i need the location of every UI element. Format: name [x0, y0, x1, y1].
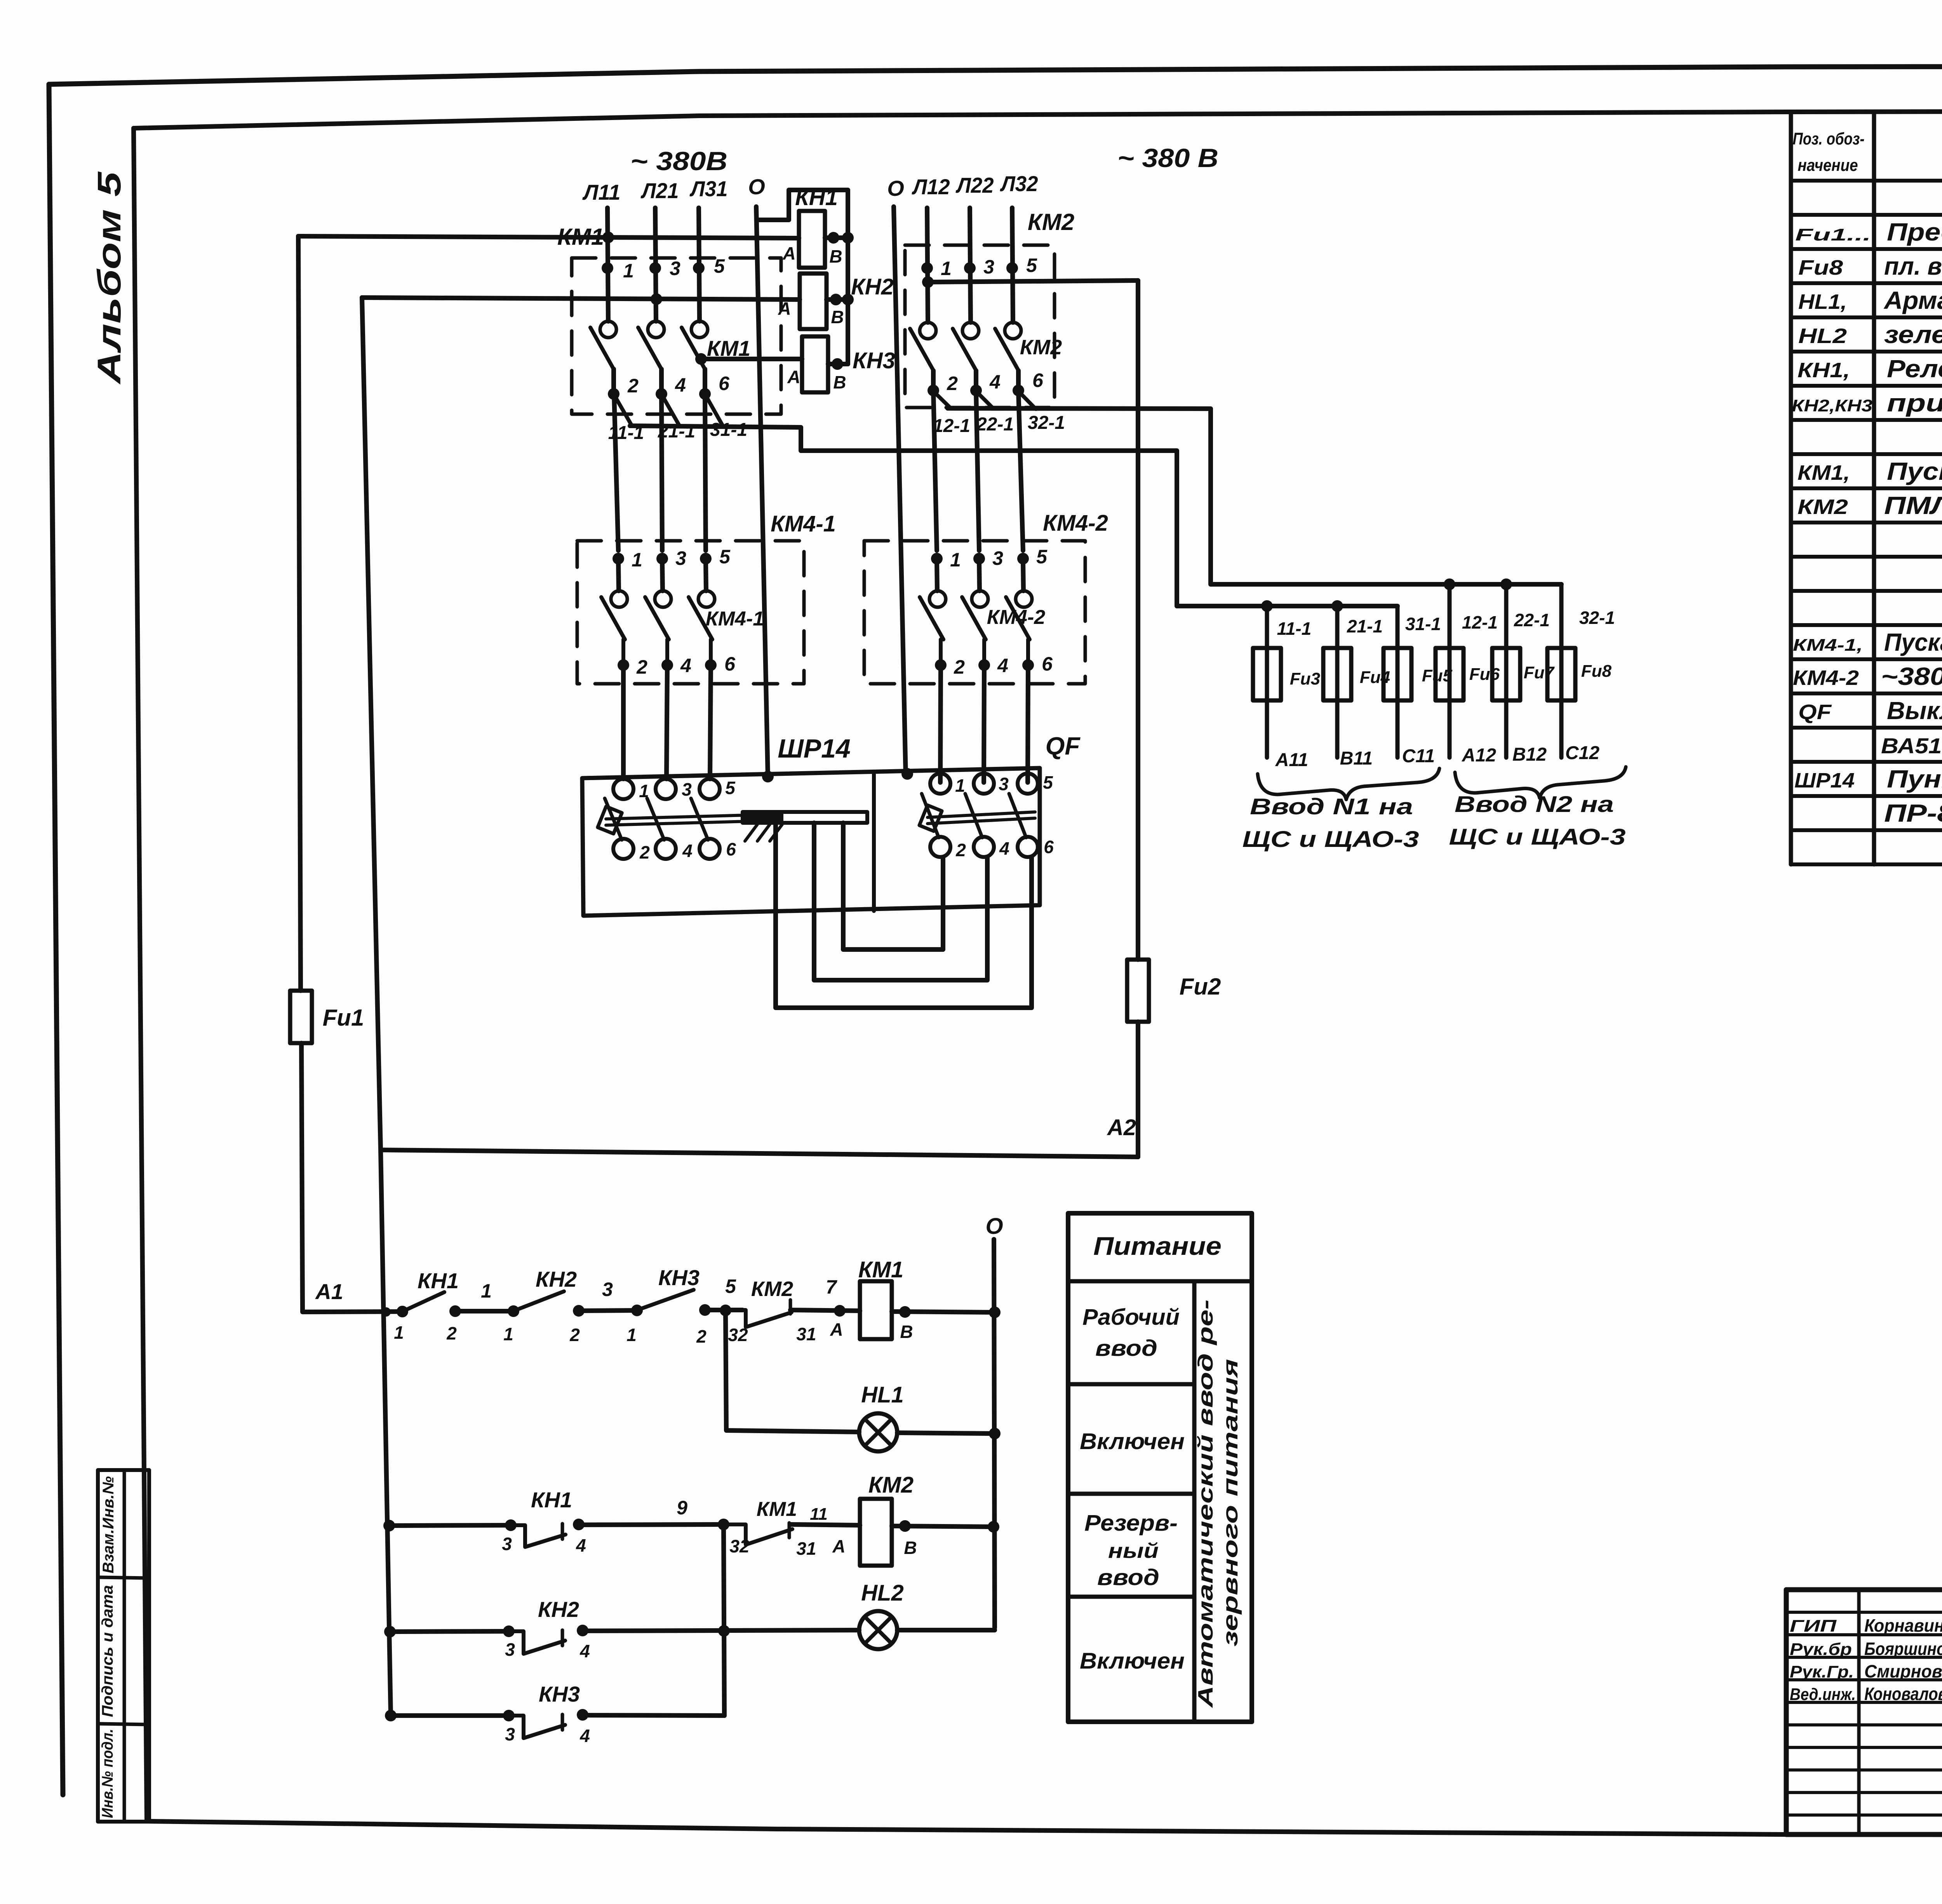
svg-text:Fu8: Fu8: [1581, 662, 1612, 681]
svg-text:В11: В11: [1340, 748, 1373, 769]
contact KH1 (3-4) NC: [505, 1519, 517, 1531]
svg-text:11-1: 11-1: [1277, 618, 1312, 639]
svg-text:31: 31: [796, 1538, 816, 1559]
svg-text:А12: А12: [1462, 745, 1496, 766]
junction: left rail to KH2 rung: [384, 1626, 396, 1637]
ShR14 fuse carrier bar: [606, 814, 779, 819]
svg-text:Резерв-: Резерв-: [1084, 1510, 1178, 1536]
junction: feeder to fuse Fu6: [1444, 578, 1455, 590]
wire: phase L21 vertical: [655, 208, 656, 321]
svg-text:Л11: Л11: [582, 180, 621, 204]
relay KH1 coil: [799, 211, 825, 268]
QF switch pole 1: [930, 773, 950, 794]
svg-text:КМ1: КМ1: [858, 1257, 903, 1282]
svg-text:1: 1: [632, 549, 642, 571]
svg-text:Предохранитель ППТ-10УЗ: Предохранитель ППТ-10УЗ: [1887, 218, 1942, 246]
wire: KH3 rung: [391, 1713, 509, 1718]
junction: neutral 1 to ShR14: [762, 771, 774, 782]
sheet inner frame: [134, 110, 1942, 128]
contact KH1 (1-2) NO: [397, 1306, 408, 1317]
KM1 pole 3 bottom terminal 6: [699, 388, 711, 400]
svg-text:КМ2: КМ2: [1020, 336, 1062, 359]
svg-text:КМ2: КМ2: [868, 1472, 914, 1498]
svg-text:Fu1...: Fu1...: [1795, 225, 1871, 244]
svg-text:ШР14: ШР14: [778, 734, 851, 763]
svg-text:4: 4: [680, 655, 691, 676]
junction: neutral 2 to ShR14: [901, 768, 913, 780]
svg-text:КМ2: КМ2: [1028, 209, 1074, 235]
svg-text:Включен: Включен: [1080, 1429, 1185, 1454]
svg-text:5: 5: [1043, 772, 1053, 793]
QF switch pole 2: [974, 773, 994, 794]
wire: L21 tap to relay KH2 coil: [362, 298, 800, 300]
wire: neutral 0 line (right): [894, 207, 906, 777]
svg-text:3: 3: [999, 774, 1009, 794]
wire: phase L31 vertical: [699, 208, 700, 321]
junction: rung2 to right rail: [988, 1521, 999, 1533]
junction: feeder to fuse Fu3: [1261, 600, 1273, 612]
ShR14 switch-fuse pole 2: [656, 779, 676, 799]
svg-text:3: 3: [602, 1279, 613, 1300]
KM2 pole 1 top terminal: [921, 262, 933, 274]
svg-text:6: 6: [719, 373, 730, 394]
junction: left rail to KH3 rung: [385, 1710, 397, 1721]
svg-text:О: О: [985, 1214, 1003, 1239]
svg-text:ввод: ввод: [1097, 1565, 1159, 1590]
svg-text:КМ4-1: КМ4-1: [706, 608, 764, 630]
svg-text:22-1: 22-1: [976, 414, 1014, 435]
svg-text:6: 6: [1032, 369, 1044, 391]
contact KH3 (3-4) NC: [503, 1710, 515, 1721]
KM4-1 pole 1 top terminal: [613, 553, 624, 564]
svg-text:Пункт распределительный: Пункт распределительный: [1887, 765, 1942, 793]
svg-text:КН3: КН3: [539, 1682, 580, 1706]
svg-text:3: 3: [670, 258, 680, 279]
ShR14 switch-fuse pole 1: [613, 779, 633, 799]
svg-text:ЩС и ЩАО-3: ЩС и ЩАО-3: [1242, 827, 1419, 852]
svg-text:~380В, 200А, ТУ16-644.001-83: ~380В, 200А, ТУ16-644.001-83: [1881, 662, 1942, 690]
svg-text:НL2: НL2: [861, 1580, 904, 1606]
svg-text:присоединение переднее: присоединение переднее: [1887, 389, 1942, 417]
junction: feeder to fuse Fu7: [1500, 578, 1512, 590]
svg-text:КМ4-1: КМ4-1: [771, 511, 836, 537]
svg-text:Взам.Инв.№: Взам.Инв.№: [100, 1476, 117, 1573]
svg-text:3: 3: [505, 1724, 515, 1744]
svg-text:КН2: КН2: [536, 1267, 577, 1291]
KM2 pole 3 bottom terminal 6: [1013, 385, 1024, 396]
svg-text:А2: А2: [1107, 1115, 1136, 1140]
junction: drop line at KH2 rung: [718, 1625, 730, 1637]
svg-text:4: 4: [579, 1726, 590, 1746]
KM4-2 pole 3 bottom terminal 6: [1022, 659, 1034, 671]
svg-text:22-1: 22-1: [1514, 610, 1550, 630]
KM1 pole 3 top terminal: [693, 262, 705, 274]
svg-text:5: 5: [725, 1275, 736, 1297]
KM4-1 pole 1 bottom terminal 2: [618, 659, 629, 671]
KM4-2 pole 2 top terminal: [973, 553, 985, 564]
svg-text:Fu1: Fu1: [323, 1005, 364, 1031]
KM2 pole 1 bottom terminal 2: [927, 385, 939, 396]
svg-text:Л32: Л32: [1000, 171, 1038, 196]
svg-text:Рук.Гр.: Рук.Гр.: [1790, 1662, 1854, 1681]
svg-text:6: 6: [1042, 653, 1053, 675]
svg-text:Л22: Л22: [955, 173, 994, 197]
KM2 pole 3 top terminal: [1006, 262, 1018, 274]
svg-text:Fu3: Fu3: [1290, 669, 1320, 688]
svg-text:ЩС и ЩАО-3: ЩС и ЩАО-3: [1449, 824, 1626, 850]
KM2 pole 3 contact: [1005, 322, 1021, 339]
brace: vvod 1 group: [1258, 768, 1439, 800]
fuse Fu5: [1396, 606, 1400, 758]
ShR14 switch-fuse pole 3: [700, 779, 720, 799]
wire: phase L22 vertical: [970, 208, 971, 322]
KM1 pole 2 bottom terminal 4: [656, 388, 667, 400]
wire: HL1 branch: [726, 1311, 859, 1432]
wire A2: reserve control feed: [381, 1150, 1138, 1157]
wire: phase L32 vertical: [1012, 208, 1013, 322]
relay KH3 coil: [802, 336, 828, 392]
svg-text:5: 5: [719, 546, 731, 568]
svg-text:В: В: [829, 246, 842, 267]
svg-text:Fu2: Fu2: [1180, 974, 1221, 1000]
svg-text:QF: QF: [1046, 732, 1081, 760]
KM1 pole 1 bottom terminal 2: [608, 388, 619, 400]
svg-text:2: 2: [446, 1323, 457, 1343]
svg-text:2: 2: [947, 373, 958, 394]
svg-text:КМ4-2: КМ4-2: [1793, 666, 1859, 690]
QF fuse carrier bar: [927, 812, 1035, 817]
KM4-1 pole 2 contact: [662, 561, 663, 591]
title block frame: [1786, 1590, 1942, 1834]
svg-text:32-1: 32-1: [1579, 608, 1615, 628]
wire: KM4-1 outputs down to ShR14: [621, 665, 626, 779]
contact KM2 (32-31) NC: [743, 1310, 792, 1327]
fuse Fu6: [1448, 584, 1452, 758]
svg-text:4: 4: [579, 1641, 590, 1661]
svg-text:32-1: 32-1: [1028, 413, 1065, 433]
svg-text:6: 6: [724, 653, 736, 675]
fuse Fu7: [1504, 584, 1509, 758]
wire: ShR14 busbar to QF pole 1: [843, 823, 943, 949]
wire: left control rail (from L21 tap to bottom rungs): [362, 298, 391, 1716]
wire: ShR14 busbar to QF pole 2: [814, 823, 987, 980]
KM4-2 pole 1 contact: [937, 561, 937, 591]
svg-text:Пускатель магнитный: Пускатель магнитный: [1887, 457, 1942, 485]
KM1 pole 2 contact: [648, 321, 664, 338]
svg-text:32: 32: [729, 1536, 750, 1556]
svg-text:32: 32: [728, 1325, 748, 1345]
wire: control rung 2: [389, 1525, 511, 1526]
svg-text:ШР14: ШР14: [1794, 769, 1855, 792]
wire: KH2 rung with HL2: [390, 1631, 509, 1632]
svg-text:О: О: [887, 176, 904, 200]
QF switch pole 3: [1018, 773, 1038, 794]
svg-text:1: 1: [626, 1325, 637, 1345]
svg-text:5: 5: [725, 778, 736, 798]
svg-text:КМ4-2: КМ4-2: [987, 606, 1046, 629]
svg-text:Fu7: Fu7: [1524, 663, 1555, 682]
KM4-2 pole 1 top terminal: [931, 553, 943, 564]
wire: phase L12 vertical: [927, 208, 928, 322]
svg-text:КМ1: КМ1: [757, 1498, 797, 1521]
svg-text:ПР-8501-016УХЛ2, 380В: ПР-8501-016УХЛ2, 380В: [1884, 799, 1942, 827]
svg-text:КН3: КН3: [853, 348, 895, 373]
KM4-1 pole 3 bottom terminal 6: [705, 659, 717, 671]
svg-text:Инв.№ подл.: Инв.№ подл.: [99, 1729, 116, 1818]
svg-text:1: 1: [950, 549, 961, 571]
svg-text:1: 1: [481, 1280, 492, 1302]
title block signature grid: [1786, 1611, 1942, 1614]
KH3 coil B terminal wire: [828, 362, 848, 366]
svg-text:А1: А1: [315, 1279, 343, 1304]
wire: neutral 0 line (left): [756, 207, 768, 777]
svg-text:Пускатель магнитный ПМЛ721002В: Пускатель магнитный ПМЛ721002В: [1884, 628, 1942, 656]
svg-text:1: 1: [394, 1322, 404, 1343]
junction: rung1 to HL1 drop: [720, 1305, 731, 1316]
svg-text:Альбом 5: Альбом 5: [91, 171, 127, 385]
svg-text:О: О: [748, 174, 765, 199]
svg-text:Поз. обоз-: Поз. обоз-: [1793, 129, 1865, 148]
svg-text:КМ2: КМ2: [1798, 495, 1848, 519]
wire: KM4-2 outputs down to QF: [940, 665, 941, 782]
fuse Fu1: [298, 236, 301, 991]
KM4-2 pole 2 contact: [979, 561, 980, 591]
KM2 pole 1 contact: [920, 322, 936, 339]
svg-text:3: 3: [983, 256, 994, 278]
svg-text:4: 4: [682, 841, 693, 861]
svg-text:А: А: [832, 1536, 845, 1556]
contact KH2 (1-2) NO: [508, 1305, 519, 1317]
svg-text:зеленый, ТУ16-535. 681 -76: зеленый, ТУ16-535. 681 -76: [1884, 321, 1942, 348]
svg-text:А: А: [778, 298, 791, 319]
svg-text:КН1: КН1: [531, 1488, 572, 1512]
svg-text:12-1: 12-1: [1462, 612, 1498, 632]
wire: KM2 blade outputs to feeder bus (vvod 2): [934, 392, 951, 408]
KH2 coil B terminal wire: [827, 297, 848, 302]
svg-text:4: 4: [675, 374, 686, 396]
svg-text:Арматура АСЛ11У2, ~220В, цвет: Арматура АСЛ11У2, ~220В, цвет: [1883, 286, 1942, 314]
svg-text:Автоматический ввод ре-: Автоматический ввод ре-: [1194, 1300, 1217, 1709]
svg-text:КН1: КН1: [418, 1268, 459, 1293]
svg-text:Смирнова: Смирнова: [1864, 1661, 1942, 1681]
svg-text:ВА51-35-33-0020-2.0УХЛ3,~380В,: ВА51-35-33-0020-2.0УХЛ3,~380В,250А: [1881, 733, 1942, 758]
svg-text:QF: QF: [1798, 700, 1832, 724]
KH1 coil B terminal wire: [825, 235, 848, 240]
svg-text:6: 6: [726, 839, 736, 859]
svg-text:Выключатель автоматический: Выключатель автоматический: [1887, 697, 1942, 725]
svg-text:1: 1: [941, 258, 952, 279]
junction: feeder to fuse Fu4: [1331, 600, 1343, 612]
svg-text:2: 2: [696, 1326, 706, 1347]
svg-text:КН1,: КН1,: [1798, 359, 1850, 382]
svg-text:Fu8: Fu8: [1798, 256, 1843, 279]
KM4-1 pole 3 top terminal: [700, 553, 712, 564]
svg-text:Рабочий: Рабочий: [1082, 1305, 1180, 1330]
svg-text:Fu6: Fu6: [1469, 665, 1500, 684]
svg-text:В: В: [900, 1322, 913, 1342]
wire: L12 tap to fuse Fu2 feeder: [928, 280, 1138, 282]
fuse Fu3: [1265, 606, 1269, 758]
svg-text:4: 4: [999, 838, 1009, 859]
contactor KM4-2 dashed box: [864, 541, 1085, 684]
svg-text:1: 1: [503, 1324, 513, 1344]
svg-text:ный: ный: [1108, 1539, 1159, 1563]
svg-text:3: 3: [502, 1534, 512, 1554]
svg-text:5: 5: [1026, 254, 1037, 276]
svg-text:5: 5: [714, 255, 725, 277]
wire: L11 tap to Fu1 and relay KH1 coil: [298, 236, 799, 238]
svg-text:4: 4: [576, 1535, 586, 1556]
svg-text:КМ4-1,: КМ4-1,: [1793, 636, 1863, 655]
svg-text:7: 7: [826, 1276, 837, 1298]
svg-text:2: 2: [627, 375, 639, 397]
KM4-1 pole 2 top terminal: [656, 553, 668, 564]
svg-text:А: А: [782, 243, 795, 263]
svg-text:С12: С12: [1565, 743, 1599, 763]
KM4-2 pole 3 top terminal: [1017, 553, 1029, 564]
svg-text:КМ1,: КМ1,: [1798, 461, 1850, 484]
svg-text:ГИП: ГИП: [1790, 1617, 1837, 1636]
wire: phase L11 vertical: [607, 208, 608, 321]
svg-text:КН3: КН3: [658, 1265, 700, 1290]
svg-text:начение: начение: [1798, 156, 1858, 175]
contact KH2 (3-4) NC: [503, 1625, 515, 1637]
wire: L31 tap to relay KH3 coil: [700, 357, 802, 361]
svg-text:2: 2: [636, 656, 647, 678]
power state table: [1068, 1213, 1252, 1722]
svg-text:ввод: ввод: [1095, 1336, 1157, 1361]
contact KH3 (1-2) NO: [631, 1305, 643, 1316]
contact KM1 (32-31) NC: [724, 1524, 792, 1545]
svg-text:НL1,: НL1,: [1798, 290, 1847, 314]
svg-text:5: 5: [1036, 546, 1048, 568]
svg-text:Ввод N2 на: Ввод N2 на: [1455, 792, 1614, 817]
KM2 pole 2 bottom terminal 4: [970, 385, 982, 396]
svg-text:Включен: Включен: [1080, 1648, 1185, 1674]
wire: vertical tie rungs 2-4: [724, 1524, 724, 1716]
svg-text:Л21: Л21: [640, 178, 679, 203]
svg-text:КМ4-2: КМ4-2: [1043, 510, 1108, 536]
svg-text:А: А: [787, 367, 800, 387]
svg-text:31-1: 31-1: [710, 420, 747, 440]
svg-text:НL1: НL1: [861, 1382, 904, 1408]
svg-text:В: В: [831, 307, 844, 327]
brace: vvod 2 group: [1455, 767, 1626, 798]
svg-text:3: 3: [682, 779, 692, 800]
ShR14 busbar: [743, 812, 867, 823]
svg-text:Корнавина: Корнавина: [1864, 1615, 1942, 1636]
svg-text:Ввод N1 на: Ввод N1 на: [1250, 794, 1413, 819]
svg-text:~ 380В: ~ 380В: [630, 146, 727, 176]
svg-text:31: 31: [796, 1324, 816, 1344]
svg-text:11: 11: [810, 1505, 828, 1524]
KM1 pole 2 top terminal: [649, 262, 661, 274]
svg-text:КМ2: КМ2: [751, 1277, 793, 1301]
svg-text:21-1: 21-1: [1347, 616, 1383, 636]
KM1 pole 1 top terminal: [602, 262, 613, 274]
junction blob where rung 1 crosses left rail: [381, 1307, 391, 1317]
svg-text:пл. вст ВТФ6УЗ, ТУ16- 522. 037: пл. вст ВТФ6УЗ, ТУ16- 522. 037 -75: [1884, 252, 1942, 280]
KM2 pole 2 contact: [962, 322, 979, 339]
svg-text:зервного питания: зервного питания: [1219, 1359, 1242, 1646]
svg-text:Подпись и дата: Подпись и дата: [99, 1585, 116, 1717]
svg-text:3: 3: [675, 547, 686, 569]
fuse Fu4: [1335, 606, 1340, 758]
svg-text:ПМЛ711002В, ~220В, 200Л: ПМЛ711002В, ~220В, 200Л: [1884, 491, 1942, 519]
ShR14/QF internal divider: [872, 774, 876, 911]
KM4-1 pole 3 contact: [706, 561, 706, 591]
svg-text:КН2: КН2: [538, 1597, 579, 1622]
KM2 pole 2 top terminal: [964, 262, 976, 274]
wire: KM1 blade outputs to feeder bus (vvod 1): [614, 395, 632, 426]
svg-text:~ 380 В: ~ 380 В: [1117, 143, 1218, 173]
svg-text:Л12: Л12: [912, 174, 950, 199]
svg-text:Бояршинов: Бояршинов: [1864, 1639, 1942, 1659]
KM4-1 pole 2 bottom terminal 4: [661, 659, 673, 671]
junction: left rail to rung 2: [383, 1520, 395, 1531]
svg-text:Л31: Л31: [689, 176, 728, 201]
svg-text:1: 1: [955, 775, 965, 796]
contactor KM4-1 dashed box: [577, 541, 804, 684]
svg-text:9: 9: [677, 1497, 687, 1519]
KM1 pole 3 contact: [691, 321, 708, 338]
svg-text:Реле РН-53/400.УХЛ4, ~220В: Реле РН-53/400.УХЛ4, ~220В: [1887, 355, 1942, 383]
svg-text:31-1: 31-1: [1405, 614, 1441, 634]
KM4-2 pole 2 bottom terminal 4: [978, 659, 990, 671]
junction: HL1 to right rail: [989, 1428, 1001, 1439]
left margin stamp column: [98, 1470, 149, 1822]
svg-text:2: 2: [955, 840, 966, 860]
junction: rung 2 to lower rungs: [718, 1519, 729, 1530]
svg-text:1: 1: [623, 260, 634, 282]
svg-text:КН2,КН3: КН2,КН3: [1792, 396, 1872, 415]
svg-text:А11: А11: [1275, 750, 1309, 770]
svg-text:6: 6: [1044, 837, 1054, 857]
svg-text:2: 2: [569, 1325, 580, 1345]
wire: relay coils B bus to neutral 0: [757, 190, 848, 364]
wire: ShR14 busbar to QF pole 3: [776, 823, 1032, 1008]
svg-text:В: В: [833, 372, 846, 392]
svg-text:Коновалова: Коновалова: [1864, 1684, 1942, 1704]
relay KH2 coil: [800, 273, 827, 329]
wire: control rung 1: [303, 1312, 402, 1312]
svg-text:12-1: 12-1: [933, 416, 970, 436]
svg-text:С11: С11: [1402, 746, 1435, 766]
svg-text:4: 4: [989, 371, 1001, 393]
contactor KM1 main contacts dashed box: [572, 258, 781, 414]
KM1 pole 1 contact: [600, 321, 616, 338]
parts list table: [1789, 113, 1793, 864]
KM4-2 pole 3 contact: [1023, 561, 1023, 591]
svg-text:В12: В12: [1512, 744, 1547, 765]
svg-text:Вед.инж.: Вед.инж.: [1790, 1685, 1856, 1704]
svg-text:3: 3: [992, 547, 1003, 569]
fuse Fu2: [1136, 280, 1140, 960]
contactor KM2 main contacts dashed box: [905, 245, 1055, 408]
junction: rung1 to right rail: [989, 1306, 1001, 1318]
svg-text:КН2: КН2: [851, 274, 894, 300]
svg-text:3: 3: [505, 1639, 515, 1660]
svg-text:НL2: НL2: [1798, 324, 1847, 348]
sheet outer border: [49, 66, 1942, 84]
svg-text:4: 4: [997, 655, 1008, 676]
svg-text:В: В: [904, 1538, 917, 1558]
KM4-2 pole 1 bottom terminal 2: [935, 659, 947, 671]
svg-text:2: 2: [954, 656, 965, 678]
svg-text:А: А: [830, 1319, 843, 1340]
svg-text:Рук.бр: Рук.бр: [1790, 1640, 1852, 1659]
KM4-1 pole 1 contact: [618, 561, 619, 591]
